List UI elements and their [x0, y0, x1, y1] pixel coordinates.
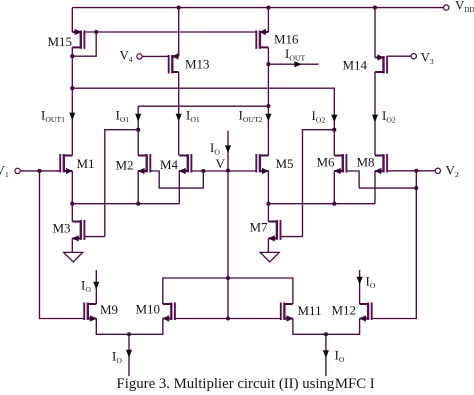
junction IOUT tap: [266, 62, 270, 66]
wire y106 line: [138, 105, 268, 107]
wire IO mid line: [227, 131, 229, 171]
arrow IO bottom-right: [323, 350, 329, 358]
wire M9-M10 source join: [96, 319, 163, 335]
node V3 terminal: [411, 54, 416, 59]
junction on rail above M13: [177, 6, 181, 10]
wire IOUT stub: [268, 63, 318, 65]
wire drain link M10-M11: [163, 278, 293, 304]
transistor M3: [72, 220, 85, 242]
junction on rail above M16: [266, 6, 270, 10]
wire M2 gate cross-couple loop: [150, 171, 203, 188]
wire M6 source down: [333, 171, 335, 204]
arrow IO2 left instance: [331, 115, 337, 123]
wire M2 source down: [137, 171, 139, 204]
svg-text:M10: M10: [136, 302, 161, 317]
wire VDD rail: [72, 7, 444, 9]
svg-text:M4: M4: [160, 157, 179, 172]
wire M3 gate loop: [84, 236, 104, 238]
wire y88 crossover line: [72, 88, 334, 130]
wire M2 drain column: [137, 106, 139, 155]
svg-text:Figure 3. Multiplier circuit (: Figure 3. Multiplier circuit (II) usingM…: [117, 376, 375, 392]
wire M15 source from VDD: [71, 8, 73, 32]
junction M2 source at y204: [136, 202, 140, 206]
wire M15 drain down / IOUT1 line: [71, 47, 73, 155]
wire y204 left line: [72, 203, 179, 205]
wire M7 drain: [267, 204, 269, 222]
wire y130 left jog: [105, 130, 138, 237]
arrow IOUT1: [69, 113, 75, 121]
wire M13 source from rail: [178, 8, 180, 57]
wire M1 source down: [71, 171, 73, 204]
arrow IO1 right instance: [176, 114, 182, 122]
svg-text:M14: M14: [343, 58, 368, 73]
svg-text:M5: M5: [276, 156, 294, 171]
svg-text:M11: M11: [298, 303, 322, 318]
junction center on gate link: [226, 316, 230, 320]
transistor M5: [256, 154, 269, 174]
transistor M2: [138, 154, 151, 174]
wire right cross line: [359, 187, 416, 189]
arrow IO above M9: [93, 282, 99, 290]
svg-text:M9: M9: [100, 302, 118, 317]
svg-text:M6: M6: [317, 155, 336, 170]
junction at y88 left: [70, 86, 74, 90]
transistor M10: [162, 303, 175, 322]
wire M3 drain: [71, 204, 73, 222]
wire M6 drain column: [333, 130, 335, 156]
junction center on drain link: [226, 276, 230, 280]
transistor M6: [334, 154, 347, 174]
wire M14 drain down to M8: [374, 72, 376, 156]
transistor M12: [359, 303, 372, 322]
wire y130 right jog: [303, 130, 335, 237]
ground under M3: [64, 252, 83, 262]
junction M2 y130: [136, 128, 140, 132]
wire M3 source to ground: [71, 238, 73, 252]
wire IO line bottom-left: [128, 334, 130, 376]
svg-text:M8: M8: [357, 155, 375, 170]
junction IO tap bottom-left: [127, 332, 131, 336]
arrow IOUT2: [265, 114, 271, 122]
svg-text:V: V: [216, 156, 226, 171]
junction on rail above M14: [373, 6, 377, 10]
svg-text:M13: M13: [185, 57, 210, 72]
junction V1 branch: [37, 169, 41, 173]
wire V1 branch down to M9 gate: [40, 171, 85, 319]
svg-text:M2: M2: [116, 158, 134, 173]
transistor M11: [281, 303, 294, 322]
arrow IO1 left instance: [135, 114, 141, 122]
wire center column: [227, 171, 229, 319]
wire M7 gate loop: [281, 236, 303, 238]
junction cross-couple on gate line: [201, 169, 205, 173]
wire M4 source down: [178, 171, 180, 204]
node V4 terminal: [137, 54, 142, 59]
junction M15 drain tie: [70, 54, 74, 58]
wire M15 gate-drain tie: [72, 32, 96, 56]
wire V4 to M13 gate: [142, 55, 169, 57]
node V1 terminal: [15, 168, 20, 173]
wire M8 gate to V2: [387, 170, 435, 172]
node VDD terminal: [444, 5, 449, 10]
svg-text:M12: M12: [332, 303, 357, 318]
wire M16 drain down to M5: [267, 47, 269, 155]
arrow IO bottom-left: [126, 350, 132, 358]
wire V2 column down: [371, 171, 416, 319]
svg-text:M15: M15: [48, 34, 73, 49]
wire M6 gate jog: [346, 171, 359, 188]
wire M14 source from rail: [374, 8, 376, 58]
wire M13 drain down to M4: [178, 72, 180, 156]
arrow IO above M12: [357, 277, 363, 285]
junction V node: [226, 169, 230, 173]
wire IO line bottom-right: [325, 334, 327, 376]
transistor M1: [60, 154, 73, 174]
transistor M14: [375, 54, 387, 73]
wire y204 right line: [268, 203, 375, 205]
wire M5 source down: [267, 171, 269, 204]
svg-text:M3: M3: [53, 221, 71, 236]
svg-text:M7: M7: [250, 220, 269, 235]
wire IO line above M9: [95, 270, 97, 304]
ground under M7: [260, 252, 279, 262]
junction V2 tap: [414, 169, 418, 173]
wire M15-M16 gate line: [84, 31, 256, 33]
svg-text:M1: M1: [77, 156, 95, 171]
arrow IOUT: [294, 61, 301, 67]
junction M6 y130: [332, 128, 336, 132]
transistor M8: [374, 154, 387, 174]
transistor M16: [256, 29, 268, 49]
transistor M13: [169, 53, 179, 73]
wire IO line above M12: [359, 270, 361, 304]
junction M6 source at y204: [332, 202, 336, 206]
transistor M15: [72, 29, 84, 49]
wire mid gate line M4-M5: [191, 170, 256, 172]
wire M8 source down: [374, 171, 376, 204]
transistor M4: [179, 154, 192, 174]
arrow IO mid: [225, 145, 231, 153]
wire M14 gate to V3: [387, 55, 411, 57]
junction IO tap bottom-right: [324, 332, 328, 336]
arrow IO2 right instance: [372, 115, 378, 123]
transistor M9: [84, 303, 97, 322]
junction at y106: [266, 104, 270, 108]
transistor M7: [268, 220, 281, 242]
junction V2 cross tap: [414, 186, 418, 190]
junction M5 source at y204: [266, 202, 270, 206]
wire M16 source from rail: [267, 8, 269, 32]
node V2 terminal: [435, 168, 440, 173]
wire V1 to M1 gate: [20, 170, 60, 172]
wire M7 source to ground: [267, 238, 269, 252]
wire gate link M10-M11: [175, 318, 281, 320]
wire M11-M12 source join: [293, 319, 360, 335]
svg-text:M16: M16: [274, 32, 299, 47]
junction M15 gate tie: [94, 30, 98, 34]
junction M1 source at y204: [70, 202, 74, 206]
